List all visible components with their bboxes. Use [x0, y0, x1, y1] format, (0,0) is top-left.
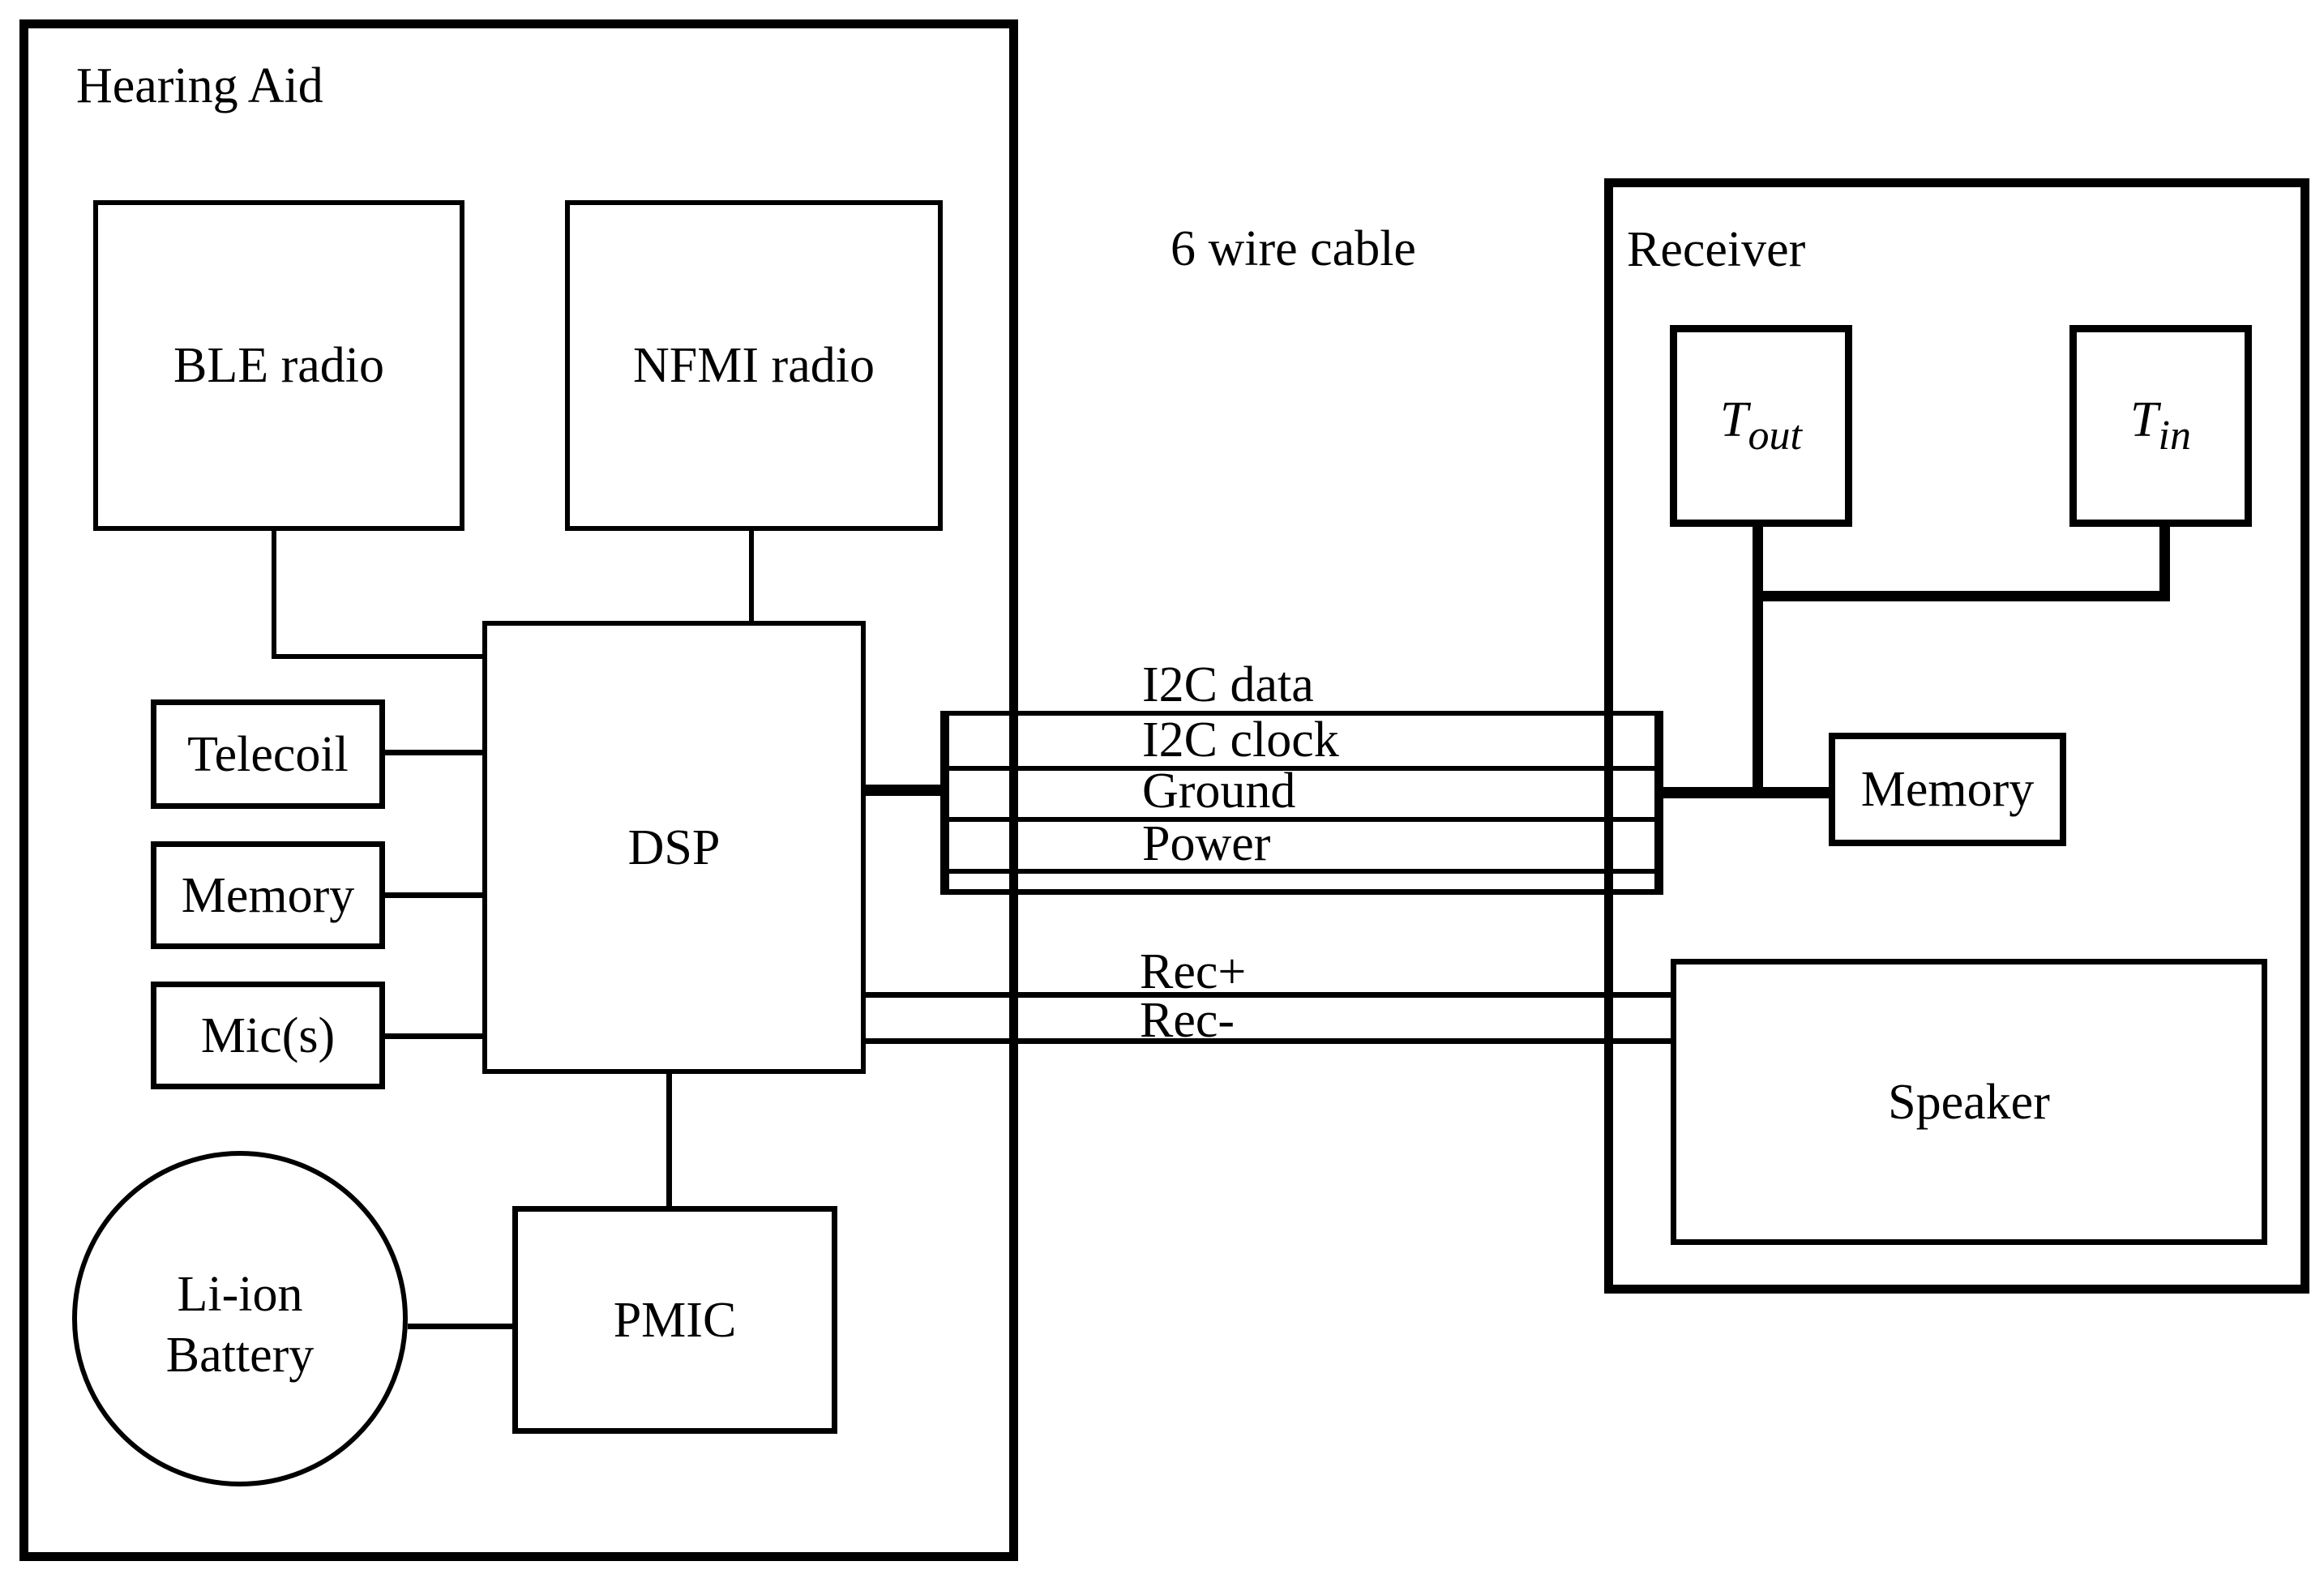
- cable bundle right wall: [1654, 711, 1663, 895]
- wire NFMI radio to DSP: [749, 531, 754, 621]
- Memory box (hearing aid): [151, 841, 385, 949]
- wire DSP to PMIC: [666, 1074, 672, 1206]
- cable bundle left wall: [940, 711, 949, 895]
- thick wire T_in down: [2159, 527, 2170, 601]
- I2C data label: [1142, 660, 1314, 710]
- wire Ground: [940, 817, 1663, 822]
- Li-ion Battery circle: [72, 1151, 408, 1486]
- wire BLE radio to DSP horizontal: [272, 654, 487, 659]
- T_in box: [2069, 325, 2252, 527]
- BLE radio box: [93, 200, 464, 531]
- thick wire T_out down to ground junction: [1753, 527, 1763, 798]
- wire I2C clock: [940, 766, 1663, 771]
- DSP box: [482, 621, 866, 1074]
- Power label: [1142, 819, 1270, 869]
- thick ground wire cable to Memory: [1663, 787, 1829, 798]
- 6 wire cable label: [1171, 224, 1416, 274]
- Receiver label: [1627, 225, 1805, 275]
- I2C clock label: [1142, 715, 1339, 765]
- Memory box (receiver): [1829, 733, 2066, 846]
- Ground label: [1142, 766, 1295, 816]
- Telecoil box: [151, 699, 385, 809]
- Mic(s) box: [151, 982, 385, 1089]
- wire Power: [940, 869, 1663, 874]
- cable bundle bottom edge: [940, 889, 1663, 895]
- Hearing Aid outer box: [19, 19, 1018, 1561]
- Hearing Aid label: [76, 61, 323, 111]
- wire Rec+: [866, 992, 1671, 998]
- thick wire T_in to T_out horizontal: [1753, 591, 2170, 601]
- wire Rec-: [866, 1038, 1671, 1044]
- wire Battery to PMIC: [408, 1324, 512, 1329]
- T_out box: [1670, 325, 1852, 527]
- Rec+ label: [1140, 947, 1246, 997]
- wire Telecoil to DSP: [385, 750, 482, 755]
- wire Mic(s) to DSP: [385, 1033, 482, 1039]
- wire I2C data: [940, 711, 1663, 716]
- PMIC box: [512, 1206, 837, 1434]
- thick ground stub DSP to cable: [866, 785, 940, 796]
- wire Memory to DSP: [385, 892, 482, 898]
- Speaker box: [1671, 959, 2267, 1245]
- NFMI radio box: [565, 200, 943, 531]
- Receiver outer box: [1604, 178, 2309, 1294]
- Rec- label: [1140, 995, 1235, 1046]
- wire BLE radio to DSP vertical: [272, 531, 276, 659]
